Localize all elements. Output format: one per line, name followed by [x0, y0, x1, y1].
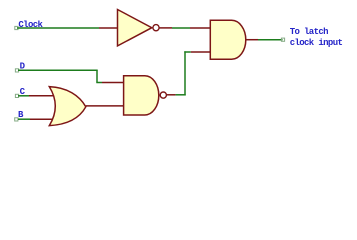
- OR gate U4 top input pin: [29, 95, 54, 97]
- node output terminal marker: [281, 38, 284, 41]
- inverter U1 (NOT gate): [118, 10, 152, 46]
- node B terminal marker: [15, 118, 18, 121]
- NAND gate U3 top input pin: [102, 82, 124, 84]
- OR gate U4 bottom input pin: [30, 118, 53, 120]
- wire B to OR pin: [18, 118, 30, 120]
- wire D to NAND: [96, 82, 102, 84]
- svg-text:clock input: clock input: [290, 38, 343, 48]
- wire D horizontal: [18, 69, 98, 71]
- AND gate U2 output pin: [246, 39, 258, 41]
- inverter U1 input pin: [99, 27, 118, 29]
- wire D vertical drop: [96, 70, 98, 82]
- NAND gate U3: [124, 76, 159, 115]
- AND gate U2 top input pin: [190, 27, 211, 29]
- wire OR output to NAND bottom input pin: [86, 105, 125, 107]
- wire to AND bottom input: [184, 51, 191, 53]
- wire AND output to latch: [258, 39, 283, 41]
- svg-text:To latch: To latch: [290, 27, 328, 37]
- node C terminal marker: [15, 94, 18, 97]
- OR gate U4: [49, 87, 86, 126]
- AND gate U2: [210, 20, 246, 59]
- wire NAND output horizontal: [176, 94, 186, 96]
- node D terminal marker: [15, 69, 18, 72]
- inverter U1 output pin: [159, 27, 172, 29]
- wire C to OR pin: [18, 95, 29, 97]
- NAND gate U3 output pin: [167, 94, 176, 96]
- wire inverter to AND gate: [172, 27, 190, 29]
- inverter U1 output bubble: [153, 25, 159, 31]
- NAND gate U3 output bubble: [160, 92, 166, 98]
- AND gate U2 bottom input pin: [191, 51, 211, 53]
- node Clock terminal marker: [15, 26, 18, 29]
- wire Clock to inverter: [17, 27, 99, 29]
- wire NAND output vertical rise: [184, 51, 186, 95]
